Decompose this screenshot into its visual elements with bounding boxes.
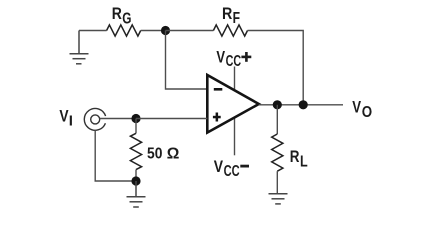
resistor RL — [272, 134, 283, 171]
wire node B to 50 ohm resistor — [135, 119, 137, 134]
node E (output / feedback junction) — [299, 100, 308, 109]
svg-text:CC: CC — [226, 53, 242, 70]
label RL — [290, 147, 308, 171]
svg-text:V: V — [216, 47, 225, 66]
svg-text:CC: CC — [224, 163, 240, 180]
label VCC+ — [216, 47, 251, 70]
svg-text:F: F — [233, 10, 240, 27]
svg-text:R: R — [112, 4, 122, 23]
wire connector pin to node B — [100, 118, 136, 120]
svg-text:G: G — [122, 11, 131, 28]
resistor 50 ohm — [130, 133, 141, 169]
svg-text:V: V — [214, 157, 224, 176]
wire RL to GND3 — [276, 171, 278, 194]
wire node B to noninverting input — [136, 118, 207, 120]
svg-text:I: I — [69, 113, 73, 130]
node D (output / RL junction) — [273, 100, 282, 109]
node B (noninverting net junction) — [131, 114, 140, 123]
label VCC- — [214, 157, 249, 180]
wire GND1 to RG — [79, 30, 107, 32]
wire 50 ohm to node C — [135, 170, 137, 181]
svg-text:V: V — [352, 98, 361, 117]
label 50 ohm — [147, 146, 180, 163]
svg-text:R: R — [290, 147, 300, 166]
op-amp U1 — [207, 75, 258, 133]
wire VCC+ — [234, 67, 236, 91]
svg-text:O: O — [362, 104, 372, 121]
label RG — [112, 4, 132, 28]
ground GND1 (top-left, RG return) — [70, 31, 89, 64]
wire node A to RF — [166, 30, 214, 32]
resistor RF — [213, 25, 247, 36]
wire node A to inverting input — [166, 31, 208, 90]
svg-text:50: 50 — [147, 146, 162, 163]
svg-text:R: R — [222, 4, 232, 23]
ground GND3 (bottom-right, RL return) — [269, 194, 288, 204]
svg-text:L: L — [300, 154, 308, 171]
ground GND2 (bottom-left) — [127, 181, 146, 207]
wire connector shield down and right to node C — [95, 130, 136, 181]
connector J1 (VI source, coax) — [84, 108, 105, 130]
label VO — [352, 98, 372, 122]
label VI — [59, 106, 72, 129]
node A (inverting net junction) — [161, 26, 170, 35]
wire node D to RL — [276, 105, 278, 134]
wire op-amp output to VO — [259, 104, 343, 106]
node C (input ground junction) — [131, 176, 140, 185]
resistor RG — [107, 25, 141, 36]
wire RG to node A — [141, 30, 166, 32]
wire VCC- — [234, 118, 236, 155]
label RF — [222, 4, 240, 27]
svg-text:Ω: Ω — [167, 146, 180, 163]
wire RF to output node E (feedback right leg) — [248, 31, 304, 105]
